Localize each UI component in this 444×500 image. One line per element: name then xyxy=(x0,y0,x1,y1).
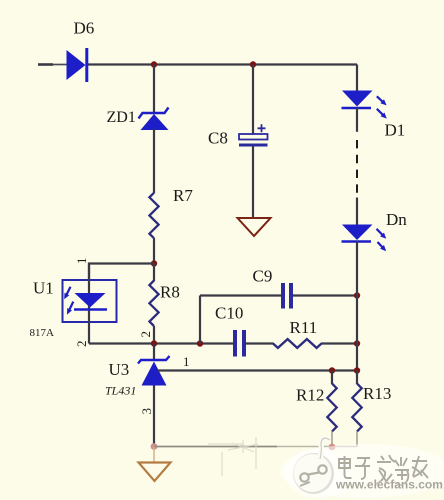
node R11 to rail xyxy=(354,340,360,346)
LED D1 xyxy=(342,91,406,140)
svg-text:R13: R13 xyxy=(363,384,391,403)
svg-text:2: 2 xyxy=(138,331,153,338)
wire bottom net left xyxy=(89,342,233,344)
resistor R13 xyxy=(352,371,391,432)
svg-text:1: 1 xyxy=(74,258,89,265)
shunt regulator U3 TL431 xyxy=(105,344,170,398)
wire ZD1 to R7 xyxy=(153,129,155,193)
optocoupler U1 xyxy=(30,264,117,344)
resistor R11 xyxy=(273,318,322,348)
node C9 to rail xyxy=(354,292,360,298)
wire C8 drop xyxy=(252,65,254,135)
svg-text:R8: R8 xyxy=(160,283,180,302)
wire bottom faint xyxy=(154,446,277,448)
node R13 top xyxy=(354,367,360,373)
capacitor C8 xyxy=(208,124,268,147)
svg-text:U1: U1 xyxy=(33,279,54,298)
svg-text:2: 2 xyxy=(74,341,89,348)
node R7/U1 xyxy=(151,260,157,266)
wire C8 to ground xyxy=(252,147,254,219)
svg-text:C10: C10 xyxy=(215,304,243,323)
wire C9 right xyxy=(293,294,357,296)
svg-text:D6: D6 xyxy=(74,19,95,38)
svg-text:www.elecfans.com: www.elecfans.com xyxy=(335,478,443,492)
svg-text:1: 1 xyxy=(183,354,190,369)
svg-text:U3: U3 xyxy=(109,360,130,379)
wire R11 to rail xyxy=(321,342,357,344)
wire to Dn xyxy=(356,198,358,226)
diode D6 xyxy=(67,19,95,83)
LED Dn xyxy=(342,210,408,251)
svg-text:817A: 817A xyxy=(30,327,55,339)
wire node to R8 xyxy=(153,264,155,282)
ground (top right) xyxy=(238,218,271,236)
wire U3 ref to rail xyxy=(158,369,357,371)
svg-text:R12: R12 xyxy=(296,386,324,405)
svg-text:3: 3 xyxy=(139,408,154,415)
resistor R8 xyxy=(149,281,179,327)
node junction top-C8 xyxy=(250,61,256,67)
node R12 top xyxy=(329,367,335,373)
wire AC input stub xyxy=(38,63,53,66)
wire C10 to R11 xyxy=(246,342,274,344)
ground (bottom) xyxy=(139,463,171,482)
wire R13 bottom stub xyxy=(356,432,358,447)
wire node to U1 pin1 xyxy=(89,264,154,281)
wire dashed D1-Dn xyxy=(356,140,358,193)
capacitor C9 xyxy=(253,267,292,309)
wire ZD1 branch xyxy=(153,65,155,114)
svg-text:D1: D1 xyxy=(385,121,406,140)
wire rail Dn down xyxy=(356,242,358,371)
node C9 branch xyxy=(197,340,203,346)
wire C9 branch vertical xyxy=(199,296,201,344)
wire R7 to node xyxy=(153,238,155,264)
svg-text:TL431: TL431 xyxy=(105,384,136,398)
wire rail to D1 xyxy=(356,65,358,92)
wire R8 to bottom net xyxy=(153,326,155,344)
capacitor C10 xyxy=(215,304,244,357)
svg-text:R7: R7 xyxy=(173,186,193,205)
node R8 bottom xyxy=(151,340,157,346)
node junction top-left xyxy=(151,61,157,67)
node R12 bottom (pink) xyxy=(329,444,336,451)
zener ZD1 xyxy=(107,108,169,131)
svg-text:Dn: Dn xyxy=(386,210,407,229)
watermark elecfans logo xyxy=(280,438,444,498)
wire U3 cathode down xyxy=(153,386,155,447)
wire to bottom ground xyxy=(153,447,155,463)
svg-text:C8: C8 xyxy=(208,129,228,148)
wire R12 bottom stub xyxy=(331,432,333,447)
resistor R12 xyxy=(296,371,337,432)
svg-text:C9: C9 xyxy=(253,267,273,286)
watermark text 电子发烧友 xyxy=(339,455,428,485)
resistor R7 xyxy=(149,186,193,238)
wire C9 left xyxy=(200,294,281,296)
wire D1 down xyxy=(356,108,358,132)
node gnd (pink) xyxy=(151,443,158,450)
svg-text:R11: R11 xyxy=(290,318,318,337)
watermark artifact marks bottom center xyxy=(208,437,258,476)
wire top rail xyxy=(53,64,67,66)
svg-text:ZD1: ZD1 xyxy=(107,109,136,126)
